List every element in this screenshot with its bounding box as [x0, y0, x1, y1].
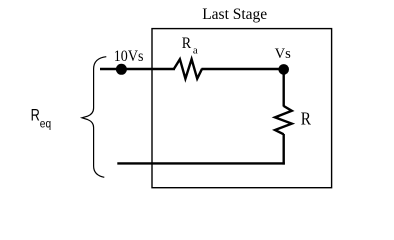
node 10Vs (junction dot)	[116, 64, 127, 75]
svg-text:R: R	[182, 35, 192, 52]
svg-text:Last Stage: Last Stage	[202, 6, 267, 23]
svg-text:a: a	[193, 45, 198, 57]
svg-text:Vs: Vs	[275, 46, 291, 62]
label: R_eq	[31, 106, 51, 131]
svg-text:R: R	[301, 108, 311, 128]
wire: resistor R down to bottom rail	[283, 134, 285, 165]
resistor R (vertical zigzag)	[275, 106, 292, 134]
wire: input lead to node 10Vs and R_a	[100, 68, 175, 70]
svg-text:R: R	[31, 106, 40, 125]
wire: bottom return rail	[117, 162, 284, 164]
wire: R_a to node Vs	[202, 68, 284, 70]
resistor R_a (horizontal zigzag)	[174, 59, 202, 78]
node Vs (junction dot)	[278, 64, 289, 75]
label: R_a	[182, 35, 198, 57]
wire: node Vs down to resistor R	[283, 69, 285, 106]
svg-text:10Vs: 10Vs	[114, 48, 144, 65]
brace for R_eq	[82, 57, 106, 178]
svg-text:eq: eq	[40, 118, 51, 130]
enclosure box (Last Stage block)	[152, 29, 332, 188]
